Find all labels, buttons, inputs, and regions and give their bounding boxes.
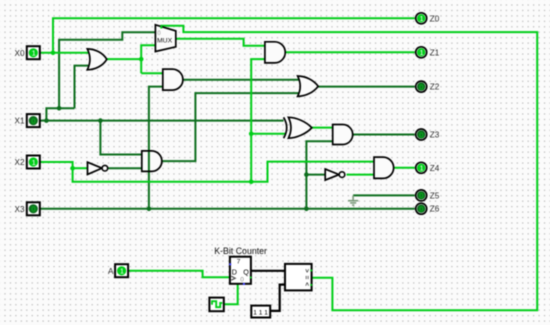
svg-text:<: < [303, 282, 310, 286]
svg-text:X2: X2 [15, 158, 25, 167]
svg-text:1: 1 [32, 49, 36, 58]
svg-text:0: 0 [240, 276, 244, 283]
svg-text:Z5: Z5 [430, 191, 440, 200]
svg-text:Z6: Z6 [430, 205, 440, 214]
svg-text:0: 0 [31, 116, 35, 125]
svg-text:>: > [303, 269, 310, 273]
svg-text:Z2: Z2 [430, 83, 440, 92]
svg-text:K-Bit Counter: K-Bit Counter [214, 246, 267, 256]
svg-text:Z4: Z4 [430, 164, 440, 173]
svg-text:1: 1 [32, 158, 36, 167]
svg-text:1 1 1: 1 1 1 [253, 310, 268, 317]
svg-text:A: A [108, 267, 114, 276]
svg-text:X1: X1 [15, 117, 25, 126]
svg-text:1: 1 [420, 14, 424, 23]
svg-text:1: 1 [120, 267, 124, 276]
svg-text:MUX: MUX [157, 37, 173, 44]
svg-text:Q: Q [243, 267, 249, 276]
svg-text:0: 0 [31, 205, 35, 214]
svg-text:Z1: Z1 [430, 48, 440, 57]
svg-text:7: 7 [237, 259, 241, 266]
svg-text:=: = [303, 276, 310, 280]
svg-text:X0: X0 [15, 49, 25, 58]
svg-text:Z3: Z3 [430, 131, 440, 140]
svg-text:0: 0 [419, 82, 423, 91]
svg-text:D: D [232, 267, 237, 276]
svg-text:Z0: Z0 [430, 14, 440, 23]
svg-text:X3: X3 [15, 205, 25, 214]
